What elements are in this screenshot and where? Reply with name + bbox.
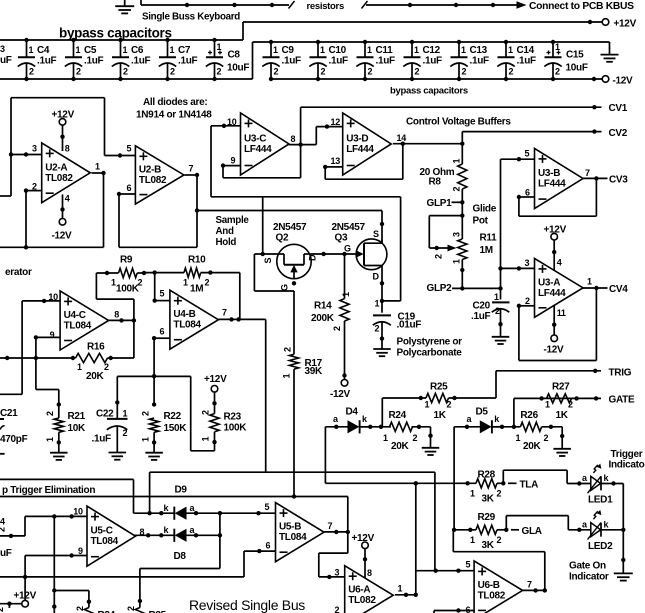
wire glide pot wiper loop (429, 213, 464, 251)
capacitor C6 .1uF (112, 38, 151, 81)
wire U2-B output (185, 173, 200, 213)
svg-text:1: 1 (555, 42, 560, 52)
label 4 (cut text) (0, 517, 7, 533)
svg-text:1: 1 (217, 42, 222, 52)
label Gate On Indicator (569, 560, 609, 582)
svg-text:8: 8 (114, 310, 119, 320)
svg-text:2: 2 (217, 67, 222, 77)
op-amp U6-B (466, 560, 533, 613)
svg-text:CV3: CV3 (609, 175, 628, 186)
terminal +12V (top right) (602, 19, 636, 30)
op-amp U5-B (265, 502, 333, 562)
svg-text:1: 1 (414, 45, 419, 55)
svg-text:2: 2 (434, 254, 444, 259)
label erator (cut text) (5, 267, 32, 278)
capacitor C11 .1uF (356, 40, 395, 81)
svg-text:1: 1 (123, 45, 128, 55)
node CV2 (609, 128, 628, 139)
svg-text:1: 1 (470, 489, 475, 499)
svg-text:7: 7 (527, 579, 532, 589)
wire Q2 drain to Q3 gate (311, 252, 357, 256)
node CV4 (609, 284, 628, 295)
svg-text:TL082: TL082 (348, 595, 376, 606)
diode D5 (454, 407, 502, 434)
svg-text:2: 2 (76, 67, 81, 77)
svg-text:D8: D8 (174, 551, 187, 562)
LED LED2 (568, 510, 623, 552)
svg-text:9: 9 (231, 156, 236, 166)
wire U6-B pin 5 row (416, 569, 474, 573)
svg-text:2: 2 (123, 67, 128, 77)
svg-text:3: 3 (32, 144, 37, 154)
terminal +12V (U6-A pin 8) (352, 533, 375, 549)
svg-text:R22: R22 (164, 411, 182, 422)
terminal +12V (U3-A pin 4) (544, 224, 567, 240)
svg-text:bypass capacitors: bypass capacitors (390, 86, 468, 97)
svg-text:D: D (308, 254, 318, 261)
svg-text:6: 6 (466, 605, 471, 613)
capacitor C5 .1uF (65, 38, 104, 81)
capacitor C21 470pF (cut at edge) (0, 408, 28, 454)
capacitor C8 10uF (206, 38, 250, 81)
svg-text:2: 2 (544, 433, 549, 443)
capacitor C10 .1uF (309, 40, 348, 81)
svg-text:Polycarbonate: Polycarbonate (397, 348, 463, 359)
label resistors (307, 1, 344, 12)
LED LED1 (567, 464, 623, 506)
svg-text:U4-B: U4-B (173, 309, 195, 320)
wire U3-C output (289, 142, 317, 146)
wire U2-A pin 2 (24, 188, 42, 247)
svg-text:Trigger: Trigger (611, 449, 643, 460)
svg-text:R24: R24 (389, 410, 407, 421)
wire D5 anode from U6-B (452, 427, 456, 532)
svg-text:1: 1 (123, 409, 128, 419)
svg-text:2: 2 (104, 362, 109, 372)
svg-text:Q2: Q2 (276, 233, 289, 244)
svg-text:R21: R21 (68, 411, 86, 422)
svg-text:1: 1 (398, 584, 403, 594)
svg-text:1N914 or 1N4148: 1N914 or 1N4148 (136, 109, 212, 120)
svg-text:1: 1 (375, 299, 380, 309)
svg-text:.1uF: .1uF (282, 56, 302, 67)
svg-text:TRIG: TRIG (609, 367, 632, 378)
capacitor C7 .1uF (159, 38, 198, 81)
svg-text:GLA: GLA (522, 526, 542, 537)
svg-text:100K: 100K (224, 423, 248, 434)
svg-text:2N5457: 2N5457 (273, 222, 307, 233)
diode D8 (134, 525, 222, 542)
svg-text:1: 1 (425, 400, 430, 410)
svg-text:LED2: LED2 (588, 541, 613, 552)
svg-text:200K: 200K (311, 313, 335, 324)
svg-text:9: 9 (78, 546, 83, 556)
svg-text:2: 2 (332, 326, 342, 331)
svg-text:2N5457: 2N5457 (332, 222, 366, 233)
svg-text:2: 2 (75, 606, 85, 611)
diode D9 (147, 503, 275, 520)
svg-text:10K: 10K (68, 423, 87, 434)
wire R27 to D5 cathode (513, 398, 515, 426)
svg-text:LF444: LF444 (244, 144, 272, 155)
capacitor C9 .1uF (262, 40, 301, 81)
svg-text:TL084: TL084 (91, 536, 119, 547)
svg-text:TL084: TL084 (173, 320, 201, 331)
svg-text:R28: R28 (478, 469, 496, 480)
svg-text:LF444: LF444 (538, 179, 566, 190)
terminal -12V (U2-A pin 4) (52, 219, 73, 242)
wire U4-C output (109, 318, 137, 322)
svg-text:2: 2 (274, 67, 279, 77)
wire U3-C pin 9 feedback (221, 145, 301, 178)
svg-text:470pF: 470pF (0, 434, 28, 445)
svg-text:6: 6 (525, 187, 530, 197)
resistor R10 1M (144, 255, 240, 295)
svg-text:TL082: TL082 (139, 175, 167, 186)
svg-text:.1uF: .1uF (329, 56, 349, 67)
svg-text:1: 1 (587, 277, 592, 287)
svg-text:.1uF: .1uF (37, 56, 57, 67)
svg-text:1: 1 (451, 259, 461, 264)
wire R28 to LED1 bridge (503, 470, 567, 483)
svg-text:2: 2 (282, 347, 292, 352)
label Connect to PCB KBUS (529, 1, 634, 12)
svg-text:Hold: Hold (216, 237, 237, 248)
svg-text:R29: R29 (478, 512, 496, 523)
svg-text:TL082: TL082 (478, 590, 506, 601)
svg-text:Connect to PCB KBUS: Connect to PCB KBUS (529, 1, 634, 12)
wire U3-B pin 5 (501, 157, 535, 268)
resistor R24 20K (360, 410, 431, 452)
svg-text:C15: C15 (566, 50, 584, 61)
svg-text:+12V: +12V (352, 533, 375, 544)
svg-text:.1uF: .1uF (92, 433, 112, 444)
wire U6-B output to gate node (453, 530, 547, 593)
ground (R22) (145, 453, 163, 460)
svg-text:13: 13 (331, 156, 341, 166)
svg-text:1: 1 (320, 45, 325, 55)
svg-text:And: And (216, 226, 234, 237)
svg-text:10uF: 10uF (227, 63, 249, 74)
transistor Q2 2N5457 (254, 222, 317, 291)
svg-text:1K: 1K (556, 410, 569, 421)
svg-text:5: 5 (265, 502, 270, 512)
wire U3-A output CV4 (582, 286, 607, 290)
wire pin-10 node to R34 (52, 516, 91, 613)
label polystyrene note (397, 337, 463, 359)
node CV3 (609, 175, 628, 186)
ground (R26) (553, 449, 571, 456)
svg-text:4: 4 (557, 258, 562, 268)
wire U2-A pin 4 (60, 194, 70, 219)
svg-text:CV4: CV4 (609, 284, 628, 295)
label p Trigger Elimination (2, 485, 95, 496)
resistor R35 (cut at bottom) (126, 606, 167, 613)
svg-text:Polystyrene or: Polystyrene or (397, 337, 463, 348)
svg-text:2: 2 (32, 182, 37, 192)
svg-text:p Trigger Elimination: p Trigger Elimination (2, 485, 95, 496)
label uF (cut text) (0, 548, 12, 559)
svg-text:2: 2 (0, 527, 7, 532)
terminal -12V (U3-A pin 11) (544, 335, 565, 356)
svg-text:-12V: -12V (330, 389, 351, 400)
svg-text:1: 1 (383, 433, 388, 443)
svg-text:.1uF: .1uF (517, 56, 537, 67)
wire R10 to U4-B output (239, 273, 241, 320)
capacitor C19 .01uF (373, 299, 422, 349)
op-amp U4-B (160, 288, 228, 349)
svg-text:1: 1 (273, 45, 278, 55)
svg-text:.1uF: .1uF (423, 56, 443, 67)
svg-text:Revised Single Bus: Revised Single Bus (189, 597, 305, 613)
svg-text:1: 1 (45, 437, 55, 442)
wire D8/D9 junction to R35 (138, 513, 220, 607)
svg-text:11: 11 (557, 308, 566, 318)
resistor R9 100K (96, 255, 146, 295)
op-amp U3-D (331, 113, 407, 175)
wire U3-A pin 11 (552, 305, 566, 335)
wire ground rail (row1 bottom to row2 top) (0, 42, 610, 79)
svg-text:GLP1: GLP1 (427, 198, 453, 209)
svg-text:20K: 20K (86, 371, 105, 382)
svg-text:8: 8 (367, 568, 372, 578)
svg-text:2: 2 (497, 535, 502, 545)
wire U4-B output (218, 317, 265, 472)
svg-text:R14: R14 (314, 301, 332, 312)
label Single Buss Keyboard (142, 12, 240, 23)
svg-text:Indicator: Indicator (569, 572, 609, 583)
wire GATE line continues from R27 (514, 396, 601, 400)
svg-text:3: 3 (0, 44, 5, 54)
svg-text:5: 5 (127, 144, 132, 154)
resistor R34 (cut at bottom) (75, 606, 116, 613)
svg-text:3K: 3K (482, 494, 495, 505)
svg-text:1: 1 (341, 292, 351, 297)
svg-text:+12V: +12V (52, 110, 75, 121)
resistor R33 (cut at corner) (0, 607, 5, 612)
wire U3-D output to R8/CV2 (393, 142, 465, 146)
wire U6-B pin 6 row (434, 608, 474, 613)
op-amp U4-C (48, 291, 119, 350)
svg-text:10: 10 (73, 506, 83, 516)
svg-text:2: 2 (415, 67, 420, 77)
svg-text:+12V: +12V (544, 224, 567, 235)
svg-text:U6-A: U6-A (348, 585, 370, 596)
svg-text:CV1: CV1 (609, 103, 628, 114)
wire LED cathodes to ground (621, 484, 625, 574)
node GLP2 (427, 283, 503, 294)
wire keyboard CV input to U2-A pin 3 (0, 98, 135, 196)
capacitor C14 .1uF (497, 40, 536, 81)
op-amp U5-C (73, 506, 144, 566)
wire D9 bypass loop (150, 472, 435, 571)
op-amp U3-A (525, 258, 593, 317)
svg-text:.1uF: .1uF (131, 56, 151, 67)
svg-text:1: 1 (545, 400, 550, 410)
resistor R17 39K (282, 281, 323, 496)
svg-text:R23: R23 (224, 411, 242, 422)
svg-text:-12V: -12V (613, 76, 634, 87)
svg-text:G: G (344, 244, 351, 254)
wire -12V rail (row 2 bottom) (271, 77, 602, 81)
svg-text:.1uF: .1uF (178, 56, 198, 67)
diode D4 (325, 407, 370, 434)
potentiometer R11 1M glide pot (434, 216, 498, 289)
svg-text:4: 4 (65, 194, 70, 204)
svg-text:-12V: -12V (52, 231, 73, 242)
resistor R8 20 Ohm (420, 159, 467, 192)
svg-text:2: 2 (495, 306, 500, 316)
svg-text:1M: 1M (190, 284, 203, 295)
resistor R23 100K (191, 392, 248, 451)
wire U3-C out to U3-D pin 12 (316, 124, 342, 144)
svg-text:2: 2 (375, 324, 380, 334)
svg-text:Pot: Pot (473, 215, 489, 226)
svg-text:U4-C: U4-C (64, 310, 86, 321)
svg-text:CV2: CV2 (609, 128, 628, 139)
wire U3-A pin 2 feedback (517, 288, 597, 361)
wire U5-B output (324, 530, 350, 534)
svg-text:3: 3 (525, 258, 530, 268)
svg-text:LF444: LF444 (538, 288, 566, 299)
label Control Voltage Buffers (406, 117, 511, 128)
label D9 (175, 485, 188, 496)
svg-text:1: 1 (77, 362, 82, 372)
svg-text:GATE: GATE (609, 395, 635, 406)
svg-text:C21: C21 (0, 408, 18, 419)
wire R17 / long line at bottom (0, 494, 348, 532)
resistor R25 1K (382, 381, 496, 421)
svg-text:7: 7 (189, 164, 194, 174)
svg-text:1: 1 (29, 45, 34, 55)
wire R29 row (454, 528, 476, 532)
svg-text:U2-B: U2-B (139, 164, 161, 175)
svg-text:D4: D4 (346, 407, 359, 418)
wire trig-elim input to D9 cathode (0, 479, 150, 513)
svg-text:-12V: -12V (544, 345, 565, 356)
op-amp U2-B (127, 144, 194, 205)
svg-text:1: 1 (170, 45, 175, 55)
label Trigger Indicator (609, 449, 645, 471)
svg-text:2: 2 (509, 67, 514, 77)
svg-text:20K: 20K (391, 441, 410, 452)
wire U2-B pin 6 feedback (117, 175, 197, 247)
svg-text:2: 2 (497, 489, 502, 499)
svg-text:R25: R25 (430, 381, 448, 392)
wire U5-C pin 10 input (0, 514, 87, 538)
svg-text:1: 1 (95, 162, 100, 172)
wire +12V terminal stub (0, 602, 22, 609)
svg-text:R11: R11 (480, 233, 498, 244)
label Glide Pot (473, 203, 497, 226)
svg-text:TLA: TLA (520, 480, 539, 491)
svg-text:U3-B: U3-B (538, 168, 560, 179)
svg-text:LED1: LED1 (588, 495, 613, 506)
resistor R21 10K (45, 402, 86, 452)
op-amp U2-A (32, 143, 100, 203)
wire U5-B out to U6-A pin 3 (319, 532, 348, 579)
svg-text:2: 2 (123, 428, 128, 438)
svg-text:39K: 39K (305, 366, 324, 377)
wire U2-B output to Q3 source (197, 211, 384, 244)
svg-text:R9: R9 (120, 255, 133, 266)
terminal -12V (top right) (602, 76, 633, 87)
svg-text:7: 7 (222, 308, 227, 318)
svg-text:2: 2 (368, 67, 373, 77)
svg-text:Glide: Glide (473, 203, 497, 214)
svg-text:.1uF: .1uF (471, 311, 491, 322)
wire U3-C pin 10 from hold node (211, 124, 241, 197)
svg-text:100K: 100K (116, 284, 140, 295)
svg-text:Gate On: Gate On (569, 560, 606, 571)
wire U3-A pin 3 (498, 266, 534, 270)
capacitor C3 (cut off at left edge) (0, 44, 12, 66)
svg-text:R27: R27 (552, 381, 570, 392)
svg-text:5: 5 (525, 149, 530, 159)
svg-text:.1uF: .1uF (84, 56, 104, 67)
svg-text:U2-A: U2-A (45, 162, 67, 173)
wire CV1 line (301, 105, 602, 145)
wire U3-B output CV3 (582, 176, 607, 180)
svg-text:5: 5 (466, 560, 471, 570)
svg-text:2: 2 (335, 605, 340, 613)
svg-text:U3-C: U3-C (244, 133, 266, 144)
wire U3-A pin 4 (552, 240, 562, 271)
svg-text:1: 1 (508, 45, 513, 55)
wire R9 jog to U4-C output (96, 273, 133, 358)
wire R25 to D4 cathode (381, 398, 383, 427)
svg-text:D5: D5 (476, 407, 489, 418)
svg-text:resistors: resistors (307, 1, 344, 12)
svg-text:2: 2 (451, 187, 461, 192)
svg-text:LF444: LF444 (346, 144, 374, 155)
transistor Q3 2N5457 (332, 222, 387, 303)
svg-text:1M: 1M (480, 245, 493, 256)
svg-text:+12V: +12V (204, 374, 227, 385)
ground (LED indicator) (614, 573, 633, 580)
node GATE (609, 395, 635, 406)
svg-text:.1uF: .1uF (470, 56, 490, 67)
svg-text:1: 1 (183, 278, 188, 288)
svg-text:2: 2 (525, 296, 530, 306)
svg-text:3: 3 (335, 567, 340, 577)
resistor R28 3K (470, 469, 505, 504)
wire R29 to LED2 bridge (506, 516, 568, 530)
svg-text:S: S (263, 258, 273, 264)
node GLP1 (427, 198, 463, 209)
terminal +12V (R23) (204, 374, 227, 392)
svg-text:2: 2 (568, 400, 573, 410)
wire hold node (Q2 source / Q3 drain / U3-C pin 10) (211, 197, 401, 301)
ground (C19) (373, 349, 391, 356)
capacitor C12 .1uF (403, 40, 442, 81)
svg-text:bypass capacitors: bypass capacitors (59, 26, 172, 41)
resistor R16 20K (0, 342, 134, 383)
svg-text:2: 2 (321, 67, 326, 77)
keyboard bus wire to PCB KBUS (141, 0, 527, 9)
svg-text:R26: R26 (520, 410, 538, 421)
wire U2-A pin 8 (60, 125, 70, 153)
svg-text:2: 2 (462, 67, 467, 77)
svg-text:1: 1 (282, 374, 292, 379)
svg-text:uF: uF (0, 548, 12, 559)
resistor R26 20K (492, 410, 562, 452)
svg-text:2: 2 (413, 433, 418, 443)
svg-text:1: 1 (367, 45, 372, 55)
svg-text:1: 1 (140, 437, 150, 442)
op-amp U6-A (335, 566, 403, 613)
wire U5-C pin 9 to +12V (23, 553, 87, 600)
